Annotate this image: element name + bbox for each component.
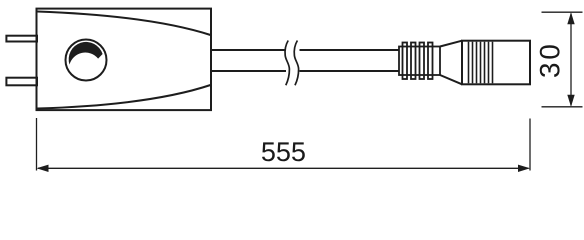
cable break squiggle right [294,41,298,86]
extension line left (555) [36,118,38,171]
extension line bottom (30) [542,106,583,108]
knurl line 7 [492,42,494,84]
mains pin lower [6,78,37,86]
arrowhead 30 bottom [567,95,574,107]
adapter body [37,9,212,111]
knurl line 5 [484,42,486,84]
body top mould curve [38,12,211,36]
knurl line 3 [476,42,478,84]
strain relief rib 2 [411,43,416,80]
strain relief rib 3 [420,43,425,80]
dimension text 30 digit 0 [540,45,560,58]
cable left segment bottom [212,70,286,72]
arrowhead 30 top [567,12,574,24]
arrowhead 555 left [37,165,49,172]
strain relief collar [399,47,440,76]
knurl line 2 [472,42,474,84]
extension line top (30) [542,11,583,13]
extension line right (555) [529,119,531,171]
knob indicator crescent [69,42,103,65]
cable break squiggle left [285,41,289,86]
strain relief rib 1 [403,43,408,80]
dimension text 555 [262,142,305,161]
dimension text 30 digit 3 [540,64,560,77]
knurl line 6 [488,42,490,84]
knurl line 1 [468,42,470,84]
body bottom mould curve [38,85,211,109]
connector barrel [462,41,530,85]
cable right segment bottom [300,70,400,72]
strain relief rib 4 [428,43,433,80]
knob circle [66,40,107,81]
mains pin upper [6,36,37,42]
dimension line 30 [570,14,572,106]
knurl line 4 [480,42,482,84]
arrowhead 555 right [518,165,530,172]
connector flare [440,41,462,85]
dimension line 555 [38,167,529,169]
cable right segment top [300,49,400,51]
cable left segment top [212,49,286,51]
